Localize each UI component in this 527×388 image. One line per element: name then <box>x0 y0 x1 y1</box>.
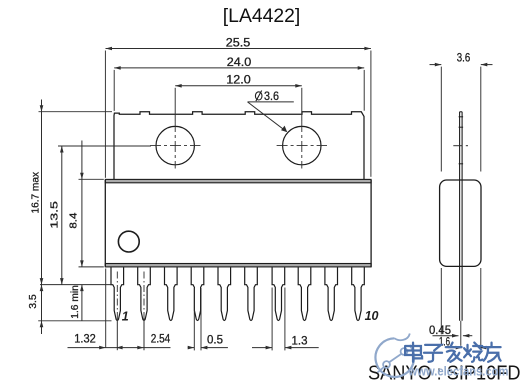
side dimension 1.6 <box>448 347 462 349</box>
svg-text:2.54: 2.54 <box>151 334 171 346</box>
side tab hole edge ticks <box>459 116 464 118</box>
label φ3.6 with leader <box>255 92 262 100</box>
centerline left hole vertical <box>174 121 176 169</box>
pin 7 <box>272 267 285 320</box>
side body outline <box>440 180 481 266</box>
pin 8 <box>298 267 311 320</box>
svg-text:1.6 min: 1.6 min <box>70 285 81 319</box>
dimension 13.5 line <box>61 146 63 285</box>
side extension lines upper <box>440 67 442 172</box>
left reference line body bottom <box>79 266 104 268</box>
svg-text:12.0: 12.0 <box>226 75 251 87</box>
body top edge thick band <box>105 179 371 182</box>
svg-text:0.5: 0.5 <box>207 335 223 347</box>
dimension 1.32 and 2.54 line <box>68 347 171 349</box>
side dimension 3.6 <box>430 64 442 66</box>
watermark logo circle <box>375 334 414 377</box>
side extension lines lower <box>440 268 442 334</box>
left reference line hole center <box>58 145 151 147</box>
body right edge <box>370 180 372 267</box>
centerline right hole vertical <box>301 121 303 169</box>
body bottom edge thick band <box>105 264 371 267</box>
watermark text 电子发烧友 (stylized) <box>405 343 500 362</box>
svg-text:3.6: 3.6 <box>264 91 279 103</box>
left reference line pin tip <box>38 320 111 322</box>
mounting hole left (φ3.6) <box>156 126 194 164</box>
dimension 25.5 extension lines <box>104 51 106 178</box>
svg-text:8.4: 8.4 <box>68 212 79 228</box>
pin 9 <box>325 267 338 320</box>
svg-text:1: 1 <box>122 310 129 324</box>
dimension 8.4 line <box>81 141 83 267</box>
pin 2 <box>138 267 151 320</box>
heatsink tab outline with index notches <box>114 112 364 180</box>
mounting hole right (φ3.6) <box>283 126 321 164</box>
svg-text:1.32: 1.32 <box>74 333 96 345</box>
dimension 0.5 line <box>188 347 194 349</box>
side dimension 0.45 <box>433 335 459 337</box>
left reference line top (heatsink top) <box>39 111 113 113</box>
pin 6 <box>245 267 258 320</box>
svg-text:www.elecfans.com: www.elecfans.com <box>408 365 509 379</box>
pin 2 centerline <box>143 272 145 319</box>
extension pin7 shoulder sides <box>271 288 273 351</box>
svg-text:24.0: 24.0 <box>227 57 252 69</box>
svg-text:25.5: 25.5 <box>226 38 251 50</box>
body left edge <box>104 180 106 267</box>
dimension 1.3 line <box>252 347 272 349</box>
svg-text:16.7 max: 16.7 max <box>31 172 42 214</box>
dimension 16.7 max line <box>41 100 43 285</box>
dimension 24.0 line <box>114 67 364 69</box>
pin 10 <box>352 267 365 320</box>
centerline left hole horizontal <box>150 145 201 147</box>
pin 5 <box>218 267 231 320</box>
svg-text:3.6: 3.6 <box>457 52 471 64</box>
svg-text:10: 10 <box>365 309 379 323</box>
dimension 3.5 line <box>41 285 43 334</box>
pin 1 index circle on body <box>118 231 139 252</box>
svg-text:13.5: 13.5 <box>50 200 61 228</box>
dimension 12.0 line <box>175 85 302 87</box>
side pin centerline below tip <box>460 321 462 346</box>
pin 4 <box>191 267 204 320</box>
svg-text:3.5: 3.5 <box>28 294 39 309</box>
centerline right hole horizontal <box>277 145 327 147</box>
svg-text:0.45: 0.45 <box>429 325 451 337</box>
side hole center crosshair <box>453 145 462 147</box>
pin 1 centerline <box>116 272 118 319</box>
left reference line pin shoulder bottom <box>40 284 111 286</box>
side heatsink tab and pin edge-on <box>459 112 461 321</box>
dimension 25.5 line <box>106 48 371 50</box>
svg-text:1.3: 1.3 <box>292 336 308 348</box>
extension pin4 narrow sides <box>193 288 195 350</box>
dimension 24.0 extension lines <box>113 70 115 111</box>
extension body left edge down <box>105 269 107 348</box>
pin 3 <box>165 267 178 320</box>
pin 1 <box>111 267 124 320</box>
svg-text:[LA4422]: [LA4422] <box>223 5 300 27</box>
dimension 1.6 min line <box>81 285 83 321</box>
left reference line body top <box>79 178 104 180</box>
dimension 12.0 extension lines <box>174 88 176 121</box>
